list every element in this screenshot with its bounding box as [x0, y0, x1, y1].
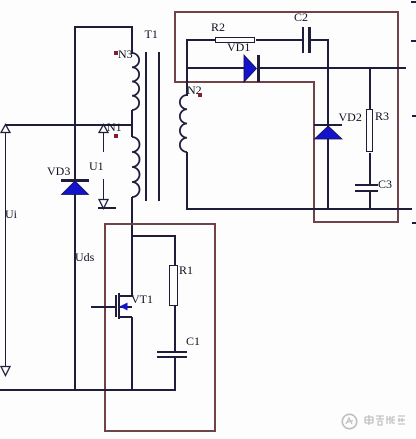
wire: N1 bottom to MOSFET drain: [131, 197, 133, 297]
wire: winding feed top: [131, 26, 133, 54]
diode VD1 cathode bar: [257, 55, 260, 82]
mosfet VT1 gate bar: [115, 295, 117, 317]
red box lower (MOSFET snubber highlight): [104, 223, 216, 432]
Ui dimension line: [5, 132, 7, 368]
Ui dimension arrow bottom (open, down): [0, 366, 12, 377]
resistor R1: [169, 265, 178, 306]
label C3: [378, 178, 392, 190]
resistor R3: [366, 109, 373, 152]
dot N2 polarity: [198, 93, 202, 97]
U1 dimension arrow top (open, up): [98, 124, 110, 134]
wire: VD1 anode wire: [186, 67, 244, 69]
red box top : left edge: [174, 11, 176, 82]
wire: between N3 and N1: [131, 110, 133, 137]
U1 dimension line upper: [103, 132, 105, 152]
capacitor C1 plate top: [157, 351, 187, 353]
red box top : right edge: [397, 11, 399, 223]
mosfet VT1 source stub: [119, 316, 132, 318]
wire: R3 feed: [369, 67, 371, 109]
dot N3 polarity: [114, 51, 118, 55]
diode VD2 triangle: [314, 126, 343, 140]
wire: C2 to corner: [311, 39, 328, 41]
label VD1: [227, 41, 250, 53]
label C2: [294, 11, 308, 23]
label N2: [187, 84, 202, 96]
tick right edge upper: [411, 40, 416, 42]
wire: bottom rail primary: [0, 389, 176, 391]
transformer core line 1: [145, 52, 147, 201]
wire: tap wire y=124 from Ui line to winding: [5, 124, 133, 126]
wire: left branch vertical (VD3 branch): [74, 26, 76, 391]
wire: N2 bottom down: [186, 152, 188, 210]
wire: R2 to C2: [256, 39, 303, 41]
wire: R2 feed vertical: [186, 39, 188, 69]
label Uds: [75, 251, 94, 263]
label R2: [211, 21, 225, 33]
capacitor C1 plate bottom: [157, 356, 187, 358]
dot N1 polarity: [114, 134, 118, 138]
wire: N2 feed: [186, 67, 188, 96]
capacitor C2 plate right: [308, 27, 311, 54]
watermark icon: [341, 413, 358, 430]
wire: gate lead: [91, 306, 115, 308]
label C1: [186, 335, 200, 347]
tick right edge top: [411, 1, 416, 3]
red box top : lower-left edge: [313, 81, 315, 223]
label Ui: [5, 208, 17, 220]
mosfet VT1 drain stub: [119, 295, 132, 297]
wire: R1 bottom to C1: [174, 306, 176, 353]
resistor R2: [215, 37, 255, 44]
red box top : step bottom edge: [174, 81, 315, 83]
mosfet VT1 body arrow (blue): [119, 302, 128, 311]
label R1: [179, 264, 193, 276]
transformer core line 2: [158, 52, 160, 201]
Ui dimension arrow top (open, up): [0, 124, 12, 134]
capacitor C3 plate top: [355, 184, 379, 186]
diode VD3 cathode bar: [61, 179, 89, 182]
wire: R3 to C3: [369, 153, 371, 186]
transformer T1 label: [145, 28, 158, 40]
watermark text 电源联盟 (placeholder glyph blocks): [364, 415, 406, 426]
wire: drain to R1 top horizontal: [131, 235, 176, 237]
wire: secondary bottom rail: [186, 208, 412, 210]
wire: C1 bottom down: [174, 358, 176, 390]
wire: source vertical down: [131, 317, 133, 390]
diode VD3 triangle: [61, 181, 89, 195]
U1 dimension terminator line: [98, 207, 116, 209]
U1 dimension line lower: [103, 179, 105, 201]
wire: C2/VD2 vertical: [327, 39, 329, 210]
capacitor C2 plate left: [302, 27, 305, 54]
label VD3: [47, 165, 70, 177]
red box top : bottom edge: [313, 221, 399, 223]
label N1: [107, 121, 122, 133]
mosfet VT1 body line: [119, 306, 132, 308]
wire: C3 down to rail: [369, 191, 371, 209]
diode VD1 triangle: [244, 55, 257, 82]
wire: top rail primary: [74, 26, 133, 28]
mosfet VT1 channel bar: [118, 293, 120, 319]
winding N2 (4 bumps bulge left): [187, 95, 197, 152]
winding N1 (4 bumps bulge right): [132, 137, 142, 197]
label R3: [375, 110, 389, 122]
wire: to R2: [186, 39, 215, 41]
winding N3 (4 bumps bulge right): [132, 53, 142, 110]
diode VD2 cathode bar: [314, 124, 343, 127]
label U1: [89, 160, 104, 172]
capacitor C3 plate bottom: [355, 190, 379, 192]
label VT1: [131, 293, 153, 305]
wire: VD1 cathode out: [260, 67, 407, 69]
wire: down to R1: [174, 235, 176, 266]
label N3: [118, 48, 133, 60]
tick right edge middle: [412, 115, 416, 117]
label VD2: [339, 111, 362, 123]
tick right edge lower: [412, 222, 416, 224]
red box top (L-shape) : top edge: [174, 11, 399, 13]
U1 dimension arrow bottom (open, down): [98, 199, 110, 210]
